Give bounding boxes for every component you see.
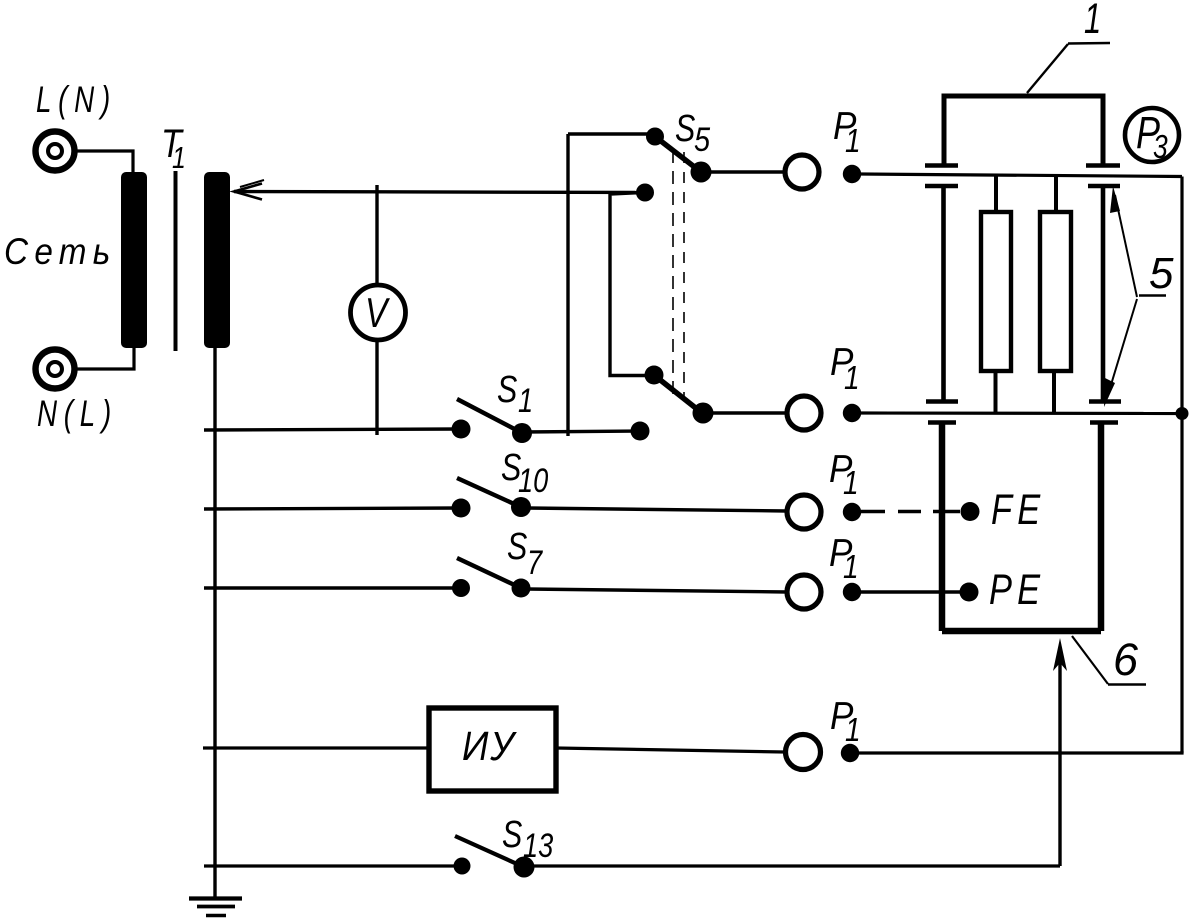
svg-text:V: V [365,291,391,337]
svg-text:1: 1 [845,712,861,749]
svg-text:1: 1 [843,465,859,502]
svg-text:1: 1 [518,381,533,420]
svg-text:1: 1 [844,360,860,397]
svg-text:5: 5 [694,120,710,159]
svg-text:10: 10 [518,461,548,500]
svg-text:PE: PE [989,566,1045,613]
svg-text:1: 1 [845,123,861,160]
svg-text:ИУ: ИУ [462,724,518,769]
svg-text:L(N): L(N) [36,78,117,120]
svg-text:S: S [675,108,695,150]
svg-text:Сеть: Сеть [4,231,117,272]
svg-text:N(L): N(L) [37,392,118,434]
svg-text:3: 3 [1153,129,1168,165]
svg-text:S: S [497,369,517,411]
svg-text:S: S [507,526,527,568]
svg-text:1: 1 [172,140,186,174]
svg-text:13: 13 [523,826,553,865]
svg-text:FE: FE [991,486,1045,533]
svg-text:6: 6 [1113,634,1139,685]
svg-text:S: S [502,814,522,856]
svg-text:1: 1 [843,549,859,586]
svg-text:5: 5 [1149,249,1174,298]
svg-text:1: 1 [1084,0,1101,42]
svg-text:7: 7 [527,543,544,582]
